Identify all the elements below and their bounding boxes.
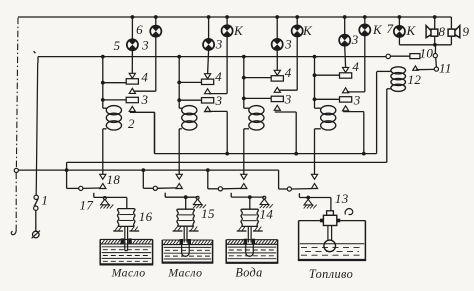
svg-text:K: K — [405, 23, 416, 38]
svg-text:10: 10 — [419, 45, 433, 60]
svg-text:3: 3 — [353, 93, 361, 108]
switch 1 lower contact — [34, 206, 38, 210]
wire second bus (lamp return) — [38, 56, 386, 58]
junction dot R4 tap ch3 — [242, 76, 246, 80]
wire to pivot circle ch4 — [279, 188, 288, 190]
wire R4 tap ch3 — [244, 77, 271, 79]
junction dot top bus lamp7 — [398, 15, 402, 19]
arrow contact above R3 ch3 — [274, 87, 280, 92]
junction dot top bus K-lamp ch4 — [363, 15, 367, 19]
wire sensor stub ch3 — [230, 193, 232, 197]
spring symbol — [345, 209, 353, 215]
sensor 14 rod — [247, 226, 249, 242]
resistor 10 — [410, 54, 420, 59]
resistor 3 channel 4 — [340, 97, 352, 102]
resistor 3 channel 3 — [271, 96, 283, 101]
switch blade wire ch1 — [83, 187, 101, 189]
wire left rail ch2 upper — [178, 57, 180, 109]
wire relay bus P — [154, 153, 376, 155]
wire lamp3 ch1 to resistor 4 — [131, 50, 133, 73]
junction dot bus R x66 — [65, 168, 69, 172]
wire lamp7 top stub — [398, 17, 400, 26]
lamp 3 channel 3 — [272, 39, 283, 50]
rod seal tank1 — [121, 238, 125, 243]
wire lamp3 ch4 top stub — [344, 17, 346, 35]
wire lamp3 ch1 top stub — [131, 17, 133, 39]
wire bus R drop ch2 — [142, 170, 144, 188]
junction dot top bus horn — [433, 15, 437, 19]
svg-text:5: 5 — [114, 38, 121, 53]
svg-text:4: 4 — [215, 69, 222, 84]
svg-text:4: 4 — [285, 65, 292, 80]
relay contact arrow up ch3 — [241, 184, 247, 189]
tank 1 (oil) — [99, 239, 101, 264]
float ball — [324, 240, 336, 252]
arrow contact above R3 ch4 — [343, 88, 349, 93]
wire bus P left riser — [153, 112, 155, 153]
svg-text:4: 4 — [141, 69, 148, 84]
tank 3 (water) — [225, 240, 227, 263]
relay coil 2 channel 2 — [182, 106, 197, 115]
svg-text:8: 8 — [438, 24, 445, 39]
wire lamp3 ch2 to resistor 4 — [208, 50, 209, 74]
wire bus P right riser to coil 12 — [376, 71, 378, 153]
wire lamp3 ch4 to resistor 4 — [344, 46, 347, 68]
wire test bus R — [18, 169, 278, 171]
arrow contact above R4 ch1 — [129, 73, 135, 78]
wire top bus corner to horn9 — [450, 17, 452, 29]
resistor 4 channel 3 — [271, 76, 283, 81]
wire R4 tap ch4 — [315, 74, 340, 76]
resistor 4 channel 2 — [202, 79, 214, 84]
thermo sensor 15 bellows — [177, 209, 178, 226]
svg-text:Вода: Вода — [235, 266, 262, 280]
junction dot bus P ch3 — [294, 152, 298, 156]
junction dot R3 tap ch2 — [177, 98, 181, 102]
svg-text:6: 6 — [136, 22, 143, 37]
wire K-lamp ch1 top stub — [155, 17, 157, 26]
screw terminal — [33, 231, 40, 238]
arrow contact above R4 ch2 — [205, 74, 211, 79]
relay contact arrow up ch4 — [311, 184, 317, 189]
junction dot bus P ch4 — [362, 152, 366, 156]
svg-text:9: 9 — [463, 24, 470, 39]
wire coil12 bottom lead — [387, 88, 391, 90]
junction dot top bus lamp3 ch2 — [207, 15, 211, 19]
relay contact arrow up ch2 — [176, 184, 182, 189]
wire rail to coil ch1 — [103, 107, 107, 109]
wire down to sensor 14 — [249, 197, 251, 209]
svg-text:12: 12 — [407, 72, 421, 87]
wire R3 tap ch3 — [244, 97, 271, 99]
relay coil 2 channel 1 — [106, 106, 121, 115]
wire bus R end drop ch4 — [278, 170, 280, 189]
switch pivot circle ch2 — [153, 186, 157, 190]
switch 1 blade — [34, 199, 38, 206]
junction dot sensor wire ch3 — [248, 195, 252, 199]
junction dot bus P ch2 — [225, 152, 229, 156]
wire horn node to switch 11 — [434, 45, 436, 54]
junction dot sensor wire ch2 — [184, 195, 188, 199]
fuel contact 13 cap — [327, 211, 334, 216]
arrow contact below R3 ch4 — [343, 106, 349, 111]
wire R3 tap ch1 — [103, 99, 126, 101]
resistor 4 channel 4 — [340, 73, 352, 78]
svg-text:3: 3 — [215, 37, 223, 52]
svg-text:K: K — [372, 22, 383, 37]
switch blade wire ch4 — [292, 188, 312, 190]
wire below-R3 ch2 to bus P — [205, 110, 227, 112]
junction dot top bus K-lamp ch1 — [154, 15, 158, 19]
svg-text:13: 13 — [335, 191, 349, 206]
wire down to sensor 15 — [185, 197, 187, 209]
resistor 3 channel 1 — [126, 97, 138, 102]
wire rail to coil ch3 — [244, 107, 249, 109]
switch blade wire ch3 — [223, 187, 242, 189]
terminal circle on chain line — [14, 168, 18, 172]
wire bus Q right riser to coil 12 — [386, 89, 388, 163]
wire to resistor 10 — [390, 55, 410, 57]
wire coil12 top lead — [377, 70, 391, 72]
junction dot R3 tap ch3 — [242, 97, 246, 101]
pivot support 17 area ch1 — [103, 197, 106, 200]
junction dot R4 tap ch1 — [101, 81, 105, 85]
switch 1 upper contact — [34, 195, 38, 199]
junction dot bus2 rail ch3 — [242, 55, 246, 59]
wire coil bottom to rail ch1 — [103, 128, 107, 130]
lamp 3 channel 2 — [203, 39, 214, 50]
wire sensor stub ch1 — [93, 193, 95, 198]
horn 9 — [448, 29, 455, 36]
svg-text:15: 15 — [201, 206, 215, 221]
lamp 7 — [394, 26, 405, 37]
wire left rail ch4 upper — [314, 57, 316, 109]
svg-text:Масло: Масло — [111, 265, 146, 279]
svg-text:11: 11 — [439, 61, 452, 76]
chassis hook end — [11, 229, 16, 235]
wire R3 tap ch2 — [179, 99, 201, 101]
junction dot R3 tap ch1 — [101, 98, 105, 102]
wire to pivot circle ch1 — [67, 187, 79, 189]
lamp 3 channel 4 — [339, 35, 350, 46]
switch pivot circle ch1 — [79, 186, 83, 190]
junction dot horn bottom node — [433, 43, 437, 47]
junction dot R4 tap ch2 — [177, 81, 181, 85]
svg-text:3: 3 — [141, 92, 149, 107]
relay contact arrow down ch2 — [176, 174, 182, 179]
resistor 4 channel 1 — [126, 79, 138, 84]
svg-text:17: 17 — [79, 197, 93, 212]
lamp 6 channel 1 — [150, 26, 161, 37]
wire K-lamp ch3 down to junction — [296, 37, 298, 91]
wire switch 11 to arrow contact — [416, 68, 434, 70]
switch 11 blade — [435, 58, 438, 67]
pivot support ch4 — [306, 196, 310, 200]
wire bus R drop ch3 — [207, 170, 209, 189]
wire sensor stub ch4 — [298, 193, 300, 197]
svg-text:7: 7 — [387, 21, 394, 36]
junction dot bus R ch2 — [141, 168, 145, 172]
arrow contact below R3 ch3 — [274, 105, 280, 110]
wire below-R3 ch1 to bus P — [130, 111, 155, 113]
sensor 14 U-tube — [246, 242, 254, 257]
wire to pivot circle ch3 — [208, 188, 218, 190]
arrow contact above R4 ch3 — [274, 70, 280, 75]
sensor 16 rod — [124, 226, 126, 250]
relay coil 2 channel 3 — [249, 106, 264, 115]
wire coil bottom to rail ch4 — [315, 128, 321, 130]
relay coil 12 — [391, 67, 406, 74]
svg-text:Топливо: Топливо — [309, 267, 353, 281]
wire switch1 to terminal — [35, 210, 37, 231]
wire below-R3 ch3 to bus P — [275, 111, 296, 113]
wire R4 tap ch1 — [103, 82, 126, 84]
arrow contact above R3 ch2 — [205, 89, 211, 94]
arrow contact of switch 11 — [413, 66, 418, 70]
wire rail to coil ch4 — [315, 107, 321, 109]
svg-text:14: 14 — [259, 207, 273, 222]
resistor 3 channel 2 — [202, 98, 214, 103]
wire bus2 left corner drop / switch 1 column — [37, 57, 39, 63]
wire K-lamp ch3 top stub — [296, 17, 298, 25]
switch pivot circle ch4 — [287, 187, 291, 191]
switch pivot circle ch3 — [218, 187, 222, 191]
switch 11 top terminal — [433, 54, 437, 58]
wire lamp3 ch2 top stub — [208, 17, 210, 39]
wire left rail ch1 upper — [102, 57, 104, 109]
relay contact arrow down ch4 — [311, 174, 317, 179]
wire chassis chain line left — [16, 18, 18, 169]
rod seal tank2 — [180, 239, 183, 244]
wire to pivot circle ch2 — [143, 187, 153, 189]
svg-text:4: 4 — [352, 59, 359, 74]
lamp K channel 3 — [292, 25, 303, 36]
horn 8 — [431, 29, 438, 36]
wire K-lamp ch2 down to junction — [226, 36, 228, 93]
junction dot top bus lamp3 ch3 — [275, 15, 279, 19]
fuel contact 13 side nubs — [320, 219, 324, 223]
tank 4 (fuel) outline — [298, 221, 300, 260]
arrow contact below R3 ch2 — [205, 107, 211, 112]
sensor 15 mounting plate — [173, 230, 183, 232]
wire lamp7 bottom — [398, 37, 400, 45]
svg-text:1: 1 — [41, 193, 48, 208]
relay contact arrow up ch1 — [100, 184, 106, 189]
thermo sensor 14 bellows — [241, 209, 242, 226]
wire sensor stub ch2 — [164, 193, 166, 198]
float rod — [327, 226, 329, 241]
svg-text:K: K — [302, 23, 313, 38]
switch blade wire ch2 — [158, 187, 177, 189]
junction dot top bus lamp3 ch1 — [131, 15, 135, 19]
svg-text:3: 3 — [351, 32, 359, 47]
svg-text:3: 3 — [284, 37, 292, 52]
wire horn8 column — [434, 17, 436, 29]
wire top supply bus — [18, 16, 451, 18]
tank 2 (oil) — [161, 240, 163, 263]
wire left rail ch3 upper — [243, 57, 245, 109]
lamp 3 channel 1 — [127, 39, 138, 50]
wire K-lamp ch1 down to junction — [155, 37, 157, 91]
wire R4 tap ch2 — [179, 81, 201, 83]
sensor 15 U-tube — [182, 242, 190, 257]
terminal circle bus2 right — [386, 54, 390, 58]
junction dot bus2 rail ch1 — [101, 55, 105, 59]
svg-text:2: 2 — [128, 116, 135, 131]
pivot support ch2 — [196, 196, 199, 199]
junction dot R3 tap ch4 — [313, 97, 317, 101]
wire coil bottom to rail ch2 — [179, 128, 182, 130]
relay contact arrow down ch3 — [241, 174, 247, 179]
sensor 15 rod — [183, 226, 185, 242]
junction dot bus R ch3 — [206, 168, 210, 172]
wire K-lamp ch4 top stub — [364, 17, 366, 24]
wire K-lamp ch4 down to junction — [364, 36, 366, 92]
junction dot R4 tap ch4 — [313, 73, 317, 77]
relay contact arrow down ch1 — [100, 174, 106, 179]
svg-text:3: 3 — [284, 91, 292, 106]
fuel liquid — [300, 243, 364, 245]
svg-text:18: 18 — [106, 172, 120, 187]
wire down to fuel contact 13 — [330, 198, 332, 211]
wire K-lamp ch2 top stub — [226, 17, 228, 25]
junction dot top bus K-lamp ch3 — [295, 15, 299, 19]
svg-text:3: 3 — [215, 93, 223, 108]
junction dot top bus K-lamp ch2 — [225, 15, 229, 19]
svg-text:16: 16 — [139, 209, 153, 224]
rod seal tank3 — [244, 239, 247, 244]
junction dot top bus lamp3 ch4 — [343, 15, 347, 19]
sensor 14 mounting plate — [237, 230, 247, 232]
wire rail to coil ch2 — [179, 107, 182, 109]
wire signal bus Q — [67, 161, 387, 163]
svg-text:3: 3 — [141, 38, 149, 53]
wire horn9 bottom — [450, 36, 452, 45]
sensor 16 mounting plate — [113, 230, 123, 232]
junction dot bus2 rail ch4 — [313, 55, 317, 59]
arrow contact below R3 ch1 — [129, 106, 135, 111]
switch 11 bottom terminal — [434, 67, 438, 71]
wire lamp3 ch3 to resistor 4 — [276, 50, 278, 70]
tick mark — [34, 51, 36, 53]
svg-text:K: K — [233, 23, 244, 38]
wire R3 tap ch4 — [315, 98, 340, 100]
lamp K channel 4 — [359, 24, 370, 35]
svg-text:Масло: Масло — [167, 265, 202, 279]
wire down to sensor 16 — [126, 197, 128, 208]
wire below-R3 ch4 to bus P — [343, 111, 364, 113]
arrow contact above R3 ch1 — [129, 88, 135, 93]
pressure sensor 16 bellows — [117, 209, 118, 227]
wire bus Q left drop — [66, 162, 68, 188]
relay coil 2 channel 4 — [321, 106, 336, 115]
pivot support ch3 — [263, 196, 266, 199]
wire coil bottom to rail ch3 — [244, 128, 249, 130]
wire lamp3 ch3 top stub — [276, 17, 278, 39]
arrow contact above R4 ch4 — [343, 67, 349, 72]
fuel contact 13 body — [323, 215, 336, 225]
junction dot bus2 rail ch2 — [177, 55, 181, 59]
lamp K channel 2 — [222, 25, 233, 36]
